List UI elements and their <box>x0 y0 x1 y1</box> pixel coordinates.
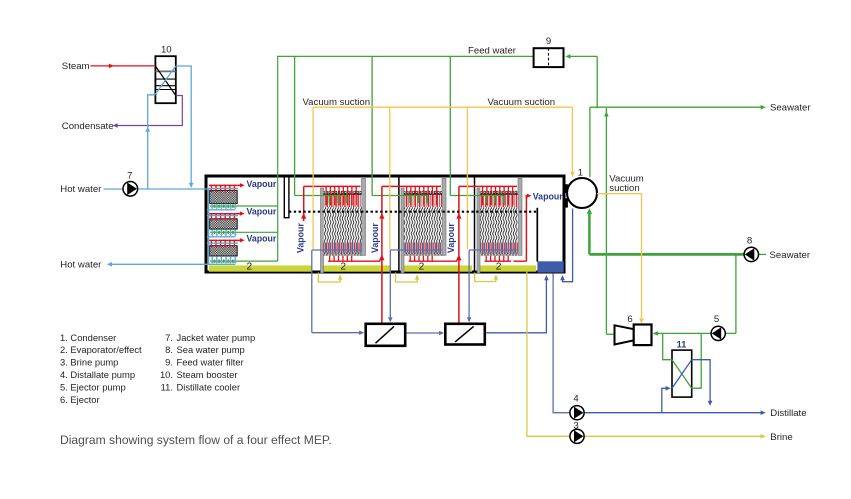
svg-text:Vapour: Vapour <box>370 223 380 253</box>
svg-text:2. Evaporator/effect: 2. Evaporator/effect <box>60 344 142 355</box>
svg-text:Jacket water pump: Jacket water pump <box>177 332 256 343</box>
svg-text:Vacuum suction: Vacuum suction <box>488 97 556 108</box>
svg-text:Seawater: Seawater <box>770 250 811 261</box>
svg-text:Distillate: Distillate <box>770 408 806 419</box>
svg-text:9: 9 <box>546 36 551 47</box>
svg-text:7: 7 <box>127 170 132 181</box>
svg-text:Vapour: Vapour <box>446 223 456 253</box>
svg-text:Diagram showing system flow of: Diagram showing system flow of a four ef… <box>60 433 332 447</box>
svg-text:6: 6 <box>627 314 632 325</box>
svg-text:1. Condenser: 1. Condenser <box>60 332 116 343</box>
svg-text:1: 1 <box>578 167 583 178</box>
svg-text:2: 2 <box>496 262 502 273</box>
svg-text:8: 8 <box>747 236 752 247</box>
svg-text:Steam: Steam <box>62 61 90 72</box>
svg-text:Hot water: Hot water <box>60 260 102 271</box>
svg-text:Condensate: Condensate <box>62 121 114 132</box>
svg-text:Seawater: Seawater <box>770 103 811 114</box>
svg-text:6. Ejector: 6. Ejector <box>60 394 100 405</box>
svg-text:Steam booster: Steam booster <box>177 369 238 380</box>
svg-text:Feed water: Feed water <box>468 46 517 57</box>
svg-text:4. Distallate pump: 4. Distallate pump <box>60 369 135 380</box>
svg-text:10.: 10. <box>160 369 173 380</box>
svg-text:Vapour: Vapour <box>295 223 305 253</box>
svg-text:8.: 8. <box>165 344 173 355</box>
svg-text:Sea water pump: Sea water pump <box>177 344 245 355</box>
svg-text:Vacuum suction: Vacuum suction <box>303 97 371 108</box>
svg-text:9.: 9. <box>165 357 173 368</box>
svg-text:Vapour: Vapour <box>247 234 277 244</box>
svg-text:5: 5 <box>714 314 719 325</box>
svg-text:Hot water: Hot water <box>60 184 102 195</box>
svg-text:11: 11 <box>677 339 687 349</box>
svg-text:Feed water filter: Feed water filter <box>177 357 244 368</box>
svg-text:Distillate cooler: Distillate cooler <box>177 381 241 392</box>
svg-text:10: 10 <box>161 45 172 56</box>
svg-text:Brine: Brine <box>770 432 792 443</box>
svg-text:2: 2 <box>246 262 252 273</box>
svg-text:Vapour: Vapour <box>247 206 277 216</box>
svg-text:Vapour: Vapour <box>533 191 563 201</box>
svg-text:2: 2 <box>340 262 346 273</box>
svg-text:2: 2 <box>419 262 425 273</box>
svg-text:11.: 11. <box>161 381 173 392</box>
svg-text:7.: 7. <box>165 332 173 343</box>
svg-text:4: 4 <box>573 394 579 405</box>
svg-text:5. Ejector pump: 5. Ejector pump <box>60 381 126 392</box>
svg-text:suction: suction <box>609 183 639 194</box>
svg-text:3. Brine pump: 3. Brine pump <box>60 357 118 368</box>
svg-text:Vapour: Vapour <box>247 179 277 189</box>
